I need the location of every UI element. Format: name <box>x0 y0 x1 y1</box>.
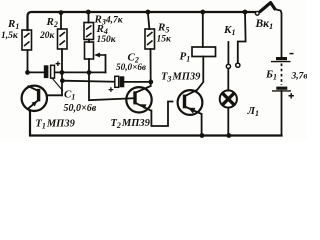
svg-text:1,5к: 1,5к <box>1 31 19 41</box>
wire: horizontal net y=72.4 from node A to R4 slider <box>28 50 44 72</box>
T3 emitter arrow <box>188 108 195 114</box>
junction: R2 lead on net y72 <box>60 70 65 75</box>
battery minus sign <box>290 53 294 55</box>
wire: R4 slider vertical <box>105 55 107 72</box>
wire: C2 coupling net y=81 <box>62 81 114 82</box>
wire: R5 top lead <box>148 13 150 29</box>
wire: relay coil top lead <box>202 12 204 47</box>
background paper <box>0 0 307 141</box>
junction: relay coil to top rail <box>200 10 205 15</box>
resistor R5 <box>145 29 155 49</box>
relay P1 coil <box>192 47 216 57</box>
svg-text:15к: 15к <box>157 35 173 45</box>
svg-text:50,0×6в: 50,0×6в <box>116 62 146 72</box>
wire: R2 column down to T1 base <box>60 14 62 29</box>
wire: K1 blade <box>227 42 229 64</box>
Vk1 blade <box>260 3 275 12</box>
wire: battery column bottom <box>281 91 283 136</box>
junction: R3 to top rail <box>86 10 91 15</box>
capacitor C1 (electrolytic) <box>44 61 60 78</box>
transistor T2 <box>126 86 151 113</box>
wire: relay coil bottom to T3 collector <box>198 57 204 90</box>
battery plus sign <box>289 93 294 98</box>
junction: lamp to bottom rail <box>226 133 231 138</box>
T2 emitter arrow <box>140 104 146 109</box>
wire: K1 right pole from rail <box>238 12 246 63</box>
svg-text:3,7в: 3,7в <box>291 72 308 82</box>
R4 slider arrow <box>94 53 100 58</box>
relay contact K1 <box>226 63 240 68</box>
junction: R2 to top rail <box>59 10 64 15</box>
wire: battery column top <box>275 9 282 57</box>
resistor R1 <box>22 30 32 50</box>
transistor T1 <box>22 86 47 112</box>
svg-text:50,0×6в: 50,0×6в <box>64 103 97 114</box>
wire: T1 base lead <box>47 94 63 96</box>
wire: lamp bottom lead <box>227 108 229 136</box>
wire: R3 top lead <box>88 13 90 23</box>
wire: R4 bottom lead down to T2 base jog <box>89 59 135 100</box>
potentiometer R4 <box>85 42 106 59</box>
wire: lamp top lead <box>227 69 229 91</box>
svg-text:Т2МП39: Т2МП39 <box>111 118 151 130</box>
battery B1 <box>271 57 291 91</box>
switch Vk1 <box>255 11 259 15</box>
svg-text:150к: 150к <box>97 35 117 45</box>
resistor R3 <box>84 23 94 40</box>
T1 emitter arrow (PNP, points to base bar) <box>32 101 38 106</box>
wire: R5 bottom lead / T2 collector column <box>150 49 152 86</box>
junction: K1 branch to top rail <box>243 10 248 15</box>
svg-text:20к: 20к <box>39 31 56 41</box>
svg-text:Т3МП39: Т3МП39 <box>161 72 201 84</box>
wire: T2 emitter jog to T3 base <box>151 102 172 127</box>
junction: T3 emitter to bottom rail <box>200 133 205 138</box>
wire: R3-R4 link <box>88 40 90 43</box>
wire: top rail <box>28 12 256 30</box>
capacitor C2 (electrolytic) <box>109 76 125 92</box>
node A: R1 / T1 collector / C1 <box>25 70 30 75</box>
lamp L1 <box>220 90 237 107</box>
junction: R5 to top rail <box>146 10 151 15</box>
resistor R2 <box>58 29 68 49</box>
junction: R4 lead on net y72 <box>87 70 92 75</box>
svg-text:Т1МП39: Т1МП39 <box>35 119 75 131</box>
transistor T3 <box>178 90 203 115</box>
junction: C2 to T2 collector column <box>148 80 153 85</box>
wire: bottom rail <box>30 112 282 136</box>
node B: C2 branch on T1 base column <box>60 78 65 83</box>
wire: T3 emitter down to rail <box>201 114 203 136</box>
C1 label leader <box>52 78 63 91</box>
